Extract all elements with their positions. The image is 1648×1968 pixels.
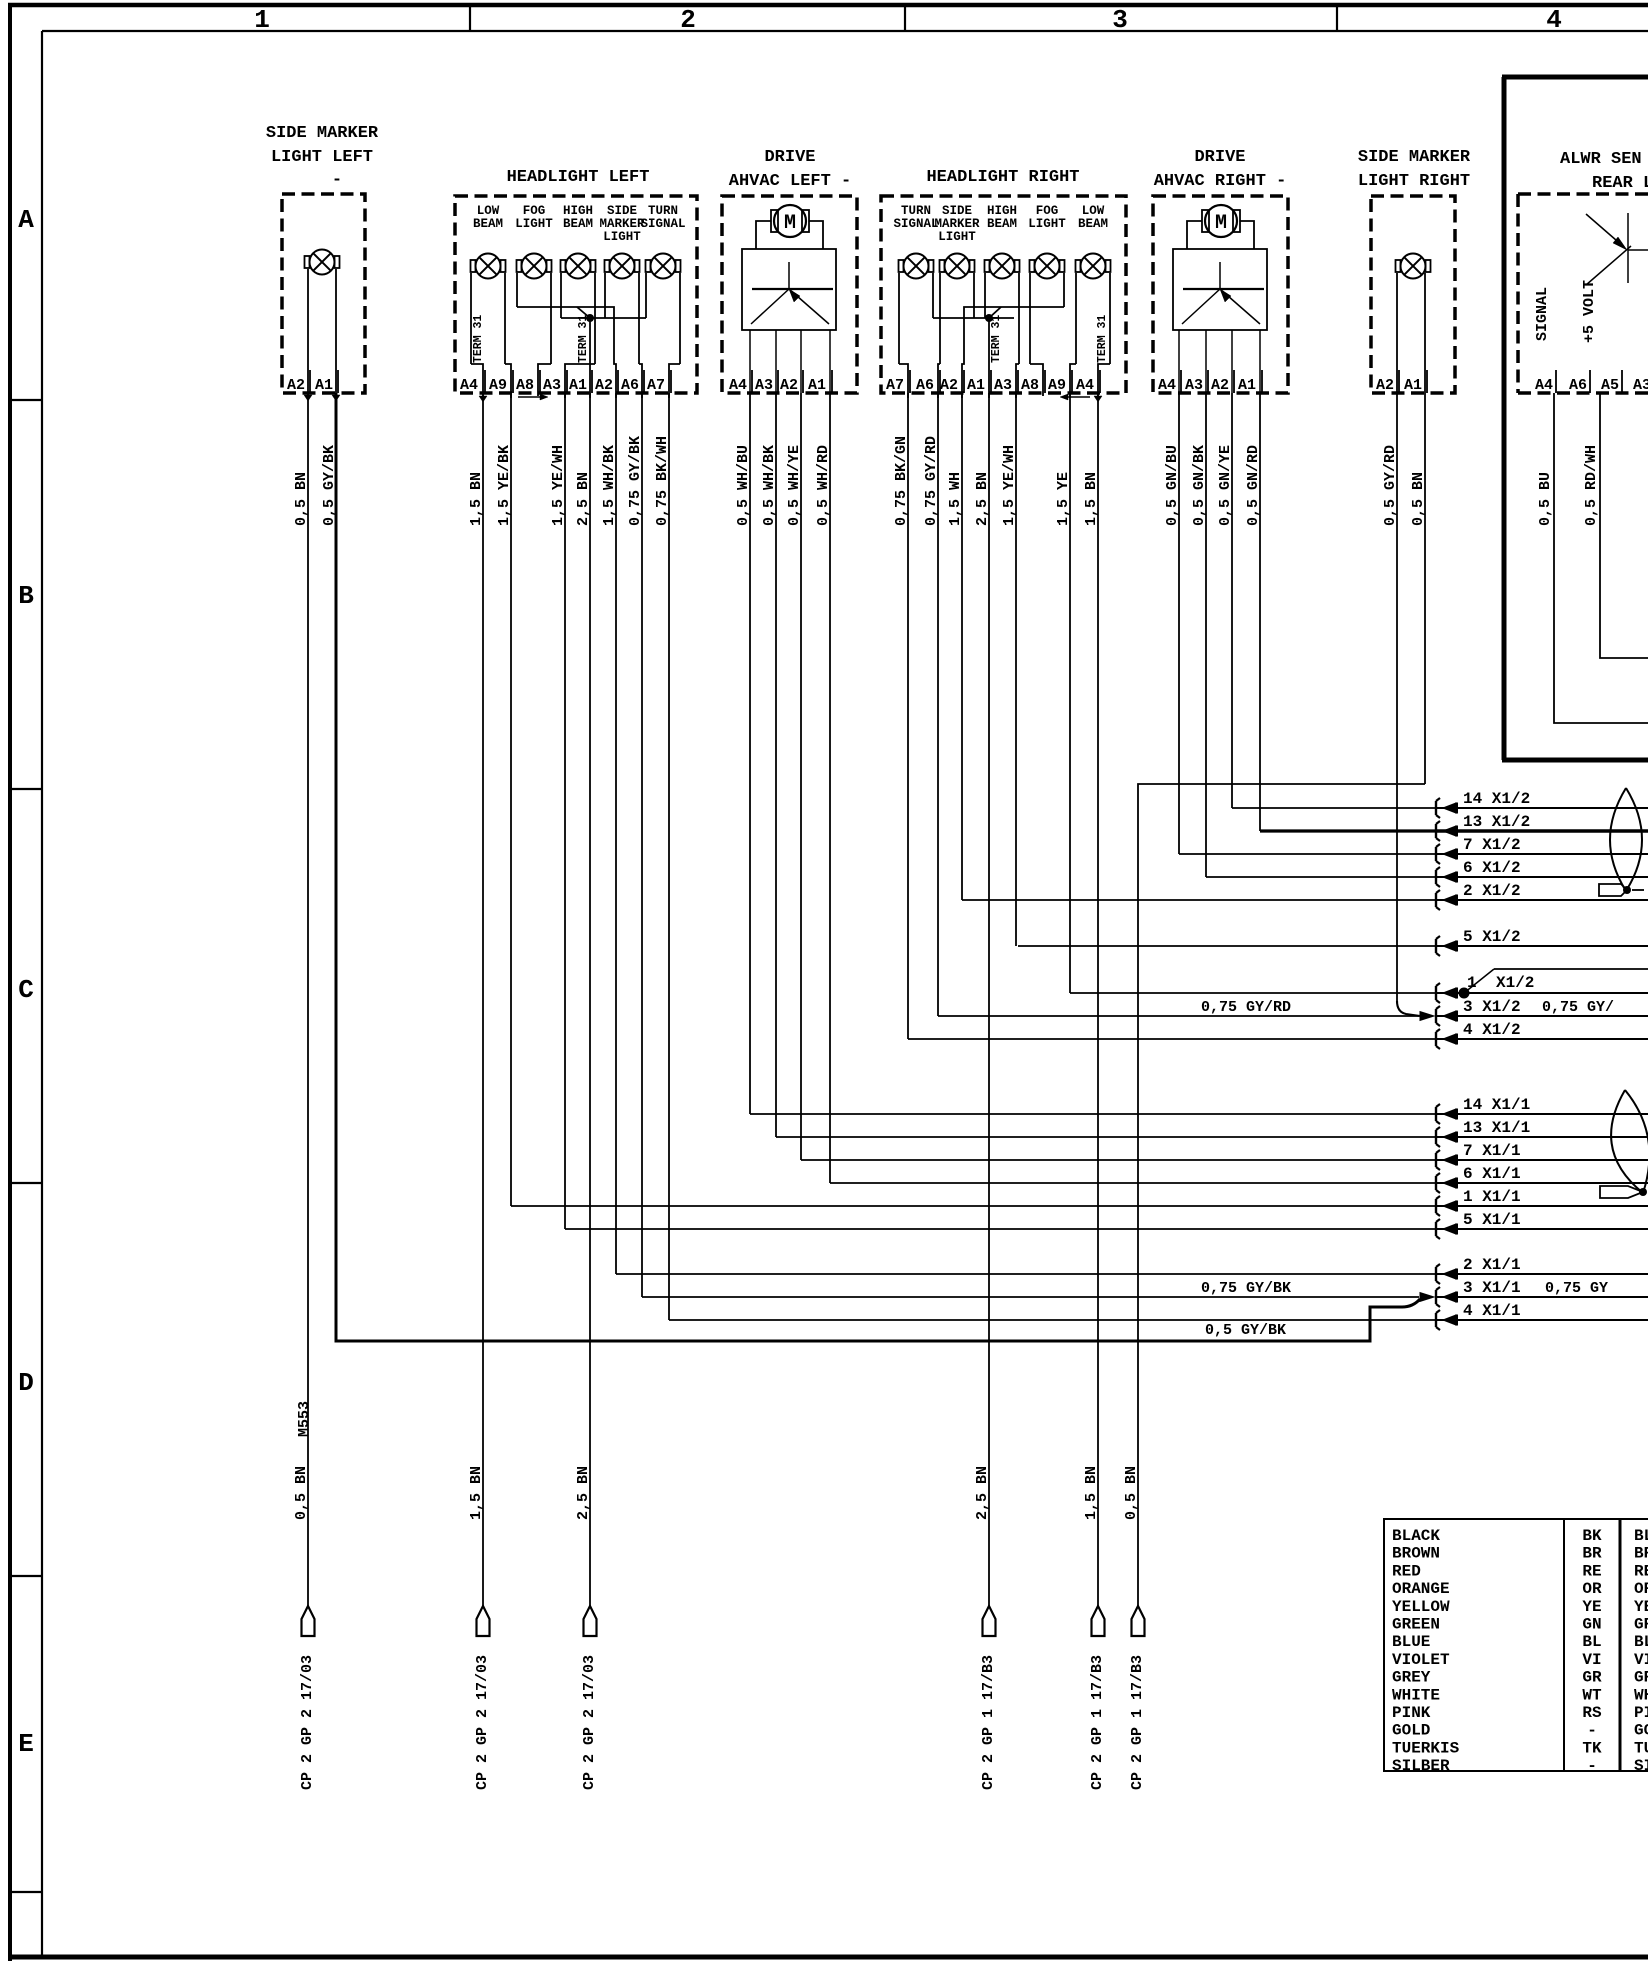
svg-text:TERM 31: TERM 31 [1096,315,1109,363]
svg-text:CP 2 GP 2 17/03: CP 2 GP 2 17/03 [299,1655,316,1790]
svg-text:A9: A9 [1048,377,1066,394]
svg-text:A2: A2 [287,377,305,394]
svg-text:BLUE: BLUE [1392,1633,1430,1651]
svg-text:0,5 GN/RD: 0,5 GN/RD [1245,445,1262,526]
svg-text:A1: A1 [967,377,985,394]
svg-text:RE: RE [1582,1562,1601,1580]
svg-text:-: - [1587,1722,1597,1740]
svg-text:REAR LEF: REAR LEF [1592,174,1648,193]
svg-text:A1: A1 [808,377,826,394]
svg-text:SIGNAL: SIGNAL [1534,287,1551,341]
svg-text:A1: A1 [569,377,587,394]
svg-text:D: D [18,1368,34,1398]
svg-text:BL: BL [1634,1527,1648,1545]
svg-text:-: - [332,171,342,190]
svg-text:13 X1/2: 13 X1/2 [1463,813,1530,831]
svg-text:GR: GR [1582,1669,1602,1687]
svg-text:A8: A8 [1021,377,1039,394]
svg-text:LIGHT: LIGHT [1028,217,1066,231]
svg-text:RED: RED [1392,1562,1421,1580]
svg-text:0,5 BN: 0,5 BN [293,472,310,526]
svg-text:0,5 WH/BK: 0,5 WH/BK [761,445,778,526]
svg-text:TUERKIS: TUERKIS [1392,1739,1460,1757]
svg-text:BR: BR [1634,1545,1648,1563]
svg-text:PI: PI [1634,1704,1648,1722]
svg-text:VIOLET: VIOLET [1392,1651,1450,1669]
svg-text:BK: BK [1582,1527,1602,1545]
svg-text:+5 VOLT: +5 VOLT [1581,280,1598,343]
svg-text:BROWN: BROWN [1392,1545,1440,1563]
svg-text:0,5 GN/YE: 0,5 GN/YE [1217,445,1234,526]
svg-text:X1/2: X1/2 [1496,974,1534,992]
svg-text:A2: A2 [940,377,958,394]
svg-text:1 X1/1: 1 X1/1 [1463,1188,1521,1206]
svg-text:6 X1/2: 6 X1/2 [1463,859,1521,877]
svg-text:SI: SI [1634,1757,1648,1775]
svg-text:SIDE: SIDE [942,204,972,218]
svg-text:SIDE: SIDE [607,204,637,218]
svg-text:C: C [18,975,34,1005]
svg-text:GR: GR [1634,1616,1648,1634]
svg-text:0,75 GY/: 0,75 GY/ [1542,999,1614,1016]
svg-text:DRIVE: DRIVE [1194,148,1245,167]
svg-text:M: M [784,212,796,235]
svg-text:0,5 GN/BU: 0,5 GN/BU [1164,445,1181,526]
svg-text:MARKER: MARKER [599,217,645,231]
svg-text:A: A [18,205,34,235]
svg-text:TURN: TURN [648,204,678,218]
svg-text:3 X1/2: 3 X1/2 [1463,998,1521,1016]
svg-text:1,5 YE/BK: 1,5 YE/BK [496,445,513,526]
svg-text:1,5 YE/WH: 1,5 YE/WH [550,445,567,526]
svg-text:LOW: LOW [1082,204,1105,218]
svg-text:BR: BR [1582,1545,1602,1563]
svg-text:A4: A4 [1535,377,1553,394]
svg-text:A4: A4 [729,377,747,394]
svg-text:0,5 BN: 0,5 BN [293,1466,310,1520]
svg-text:0,75 GY/RD: 0,75 GY/RD [1201,999,1291,1016]
svg-text:BEAM: BEAM [563,217,593,231]
svg-text:A4: A4 [460,377,478,394]
svg-text:A6: A6 [621,377,639,394]
svg-text:CP 2 GP 1 17/B3: CP 2 GP 1 17/B3 [1089,1655,1106,1790]
svg-text:LIGHT: LIGHT [603,230,641,244]
svg-text:2 X1/1: 2 X1/1 [1463,1256,1521,1274]
svg-text:A3: A3 [543,377,561,394]
svg-text:TK: TK [1582,1739,1602,1757]
svg-text:A2: A2 [1376,377,1394,394]
svg-text:0,5 BU: 0,5 BU [1537,472,1554,526]
svg-text:BL: BL [1582,1633,1601,1651]
svg-text:A1: A1 [315,377,333,394]
svg-text:A7: A7 [886,377,904,394]
svg-text:A2: A2 [595,377,613,394]
svg-text:2: 2 [680,5,696,35]
svg-text:A2: A2 [780,377,798,394]
svg-text:0,5 WH/RD: 0,5 WH/RD [815,445,832,526]
svg-text:A3: A3 [755,377,773,394]
svg-text:A8: A8 [516,377,534,394]
svg-text:LIGHT RIGHT: LIGHT RIGHT [1358,172,1470,191]
svg-text:A6: A6 [1569,377,1587,394]
svg-text:YE: YE [1582,1598,1601,1616]
svg-text:RE: RE [1634,1562,1648,1580]
svg-text:4 X1/1: 4 X1/1 [1463,1302,1521,1320]
svg-text:1,5 BN: 1,5 BN [468,472,485,526]
svg-text:BLACK: BLACK [1392,1527,1440,1545]
svg-text:RS: RS [1582,1704,1602,1722]
svg-text:CP 2 GP 1 17/B3: CP 2 GP 1 17/B3 [980,1655,997,1790]
svg-text:M553: M553 [296,1401,313,1437]
svg-text:1,5 WH: 1,5 WH [947,472,964,526]
svg-text:1,5 WH/BK: 1,5 WH/BK [601,445,618,526]
svg-text:0,75 GY/BK: 0,75 GY/BK [1201,1280,1291,1297]
svg-text:2,5 BN: 2,5 BN [575,472,592,526]
svg-text:OR: OR [1634,1580,1648,1598]
svg-text:BEAM: BEAM [473,217,503,231]
svg-text:BEAM: BEAM [1078,217,1108,231]
svg-text:2,5 BN: 2,5 BN [974,472,991,526]
svg-text:AHVAC RIGHT -: AHVAC RIGHT - [1154,172,1287,191]
svg-text:TERM 31: TERM 31 [577,315,590,363]
svg-text:GOLD: GOLD [1392,1722,1430,1740]
svg-text:BEAM: BEAM [987,217,1017,231]
svg-text:GN: GN [1582,1616,1601,1634]
svg-text:A9: A9 [489,377,507,394]
svg-text:LOW: LOW [477,204,500,218]
svg-text:A3: A3 [1633,377,1648,394]
svg-text:TERM 31: TERM 31 [472,315,485,363]
svg-text:CP 2 GP 2 17/03: CP 2 GP 2 17/03 [581,1655,598,1790]
svg-text:WH: WH [1634,1686,1648,1704]
svg-text:0,5 GY/BK: 0,5 GY/BK [1205,1322,1286,1339]
svg-text:0,5 GN/BK: 0,5 GN/BK [1191,445,1208,526]
svg-text:FOG: FOG [523,204,546,218]
svg-text:PINK: PINK [1392,1704,1431,1722]
svg-text:A4: A4 [1076,377,1094,394]
svg-text:TURN: TURN [901,204,931,218]
svg-text:0,75 GY/BK: 0,75 GY/BK [627,436,644,526]
svg-text:A3: A3 [994,377,1012,394]
svg-text:-: - [1587,1757,1597,1775]
svg-text:VI: VI [1582,1651,1601,1669]
svg-text:3: 3 [1112,5,1128,35]
svg-text:7 X1/1: 7 X1/1 [1463,1142,1521,1160]
svg-text:ORANGE: ORANGE [1392,1580,1450,1598]
svg-text:WT: WT [1582,1686,1602,1704]
svg-text:1,5 YE: 1,5 YE [1055,472,1072,526]
svg-text:0,75 GY/RD: 0,75 GY/RD [923,436,940,526]
svg-text:14 X1/2: 14 X1/2 [1463,790,1530,808]
svg-text:E: E [18,1729,34,1759]
svg-text:GR: GR [1634,1669,1648,1687]
svg-text:SIGNAL: SIGNAL [893,217,938,231]
svg-text:5 X1/2: 5 X1/2 [1463,928,1521,946]
svg-text:A1: A1 [1404,377,1422,394]
svg-text:FOG: FOG [1036,204,1059,218]
svg-text:0,5 WH/BU: 0,5 WH/BU [735,445,752,526]
svg-text:0,5 BN: 0,5 BN [1123,1466,1140,1520]
svg-text:TU: TU [1634,1739,1648,1757]
svg-text:1,5 BN: 1,5 BN [468,1466,485,1520]
svg-text:YELLOW: YELLOW [1392,1598,1450,1616]
svg-text:DRIVE: DRIVE [764,148,815,167]
svg-text:LIGHT: LIGHT [938,230,976,244]
svg-text:HIGH: HIGH [563,204,593,218]
svg-text:MARKER: MARKER [934,217,980,231]
svg-text:4 X1/2: 4 X1/2 [1463,1021,1521,1039]
svg-text:4: 4 [1546,5,1562,35]
svg-text:BL: BL [1634,1633,1648,1651]
svg-text:GO: GO [1634,1722,1648,1740]
svg-text:2,5 BN: 2,5 BN [575,1466,592,1520]
svg-text:2 X1/2: 2 X1/2 [1463,882,1521,900]
svg-text:WHITE: WHITE [1392,1686,1440,1704]
svg-text:HEADLIGHT LEFT: HEADLIGHT LEFT [507,168,650,187]
svg-text:2,5 BN: 2,5 BN [974,1466,991,1520]
svg-text:1,5 BN: 1,5 BN [1083,1466,1100,1520]
svg-text:1: 1 [254,5,270,35]
svg-text:0,75 BK/GN: 0,75 BK/GN [893,436,910,526]
svg-text:A3: A3 [1185,377,1203,394]
svg-text:0,75 GY: 0,75 GY [1545,1280,1608,1297]
svg-text:0,5 WH/YE: 0,5 WH/YE [786,445,803,526]
svg-text:SIDE MARKER: SIDE MARKER [1358,148,1471,167]
svg-text:SIGNAL: SIGNAL [640,217,685,231]
svg-text:SILBER: SILBER [1392,1757,1450,1775]
svg-text:A5: A5 [1601,377,1619,394]
svg-text:A2: A2 [1211,377,1229,394]
svg-text:M: M [1215,212,1227,235]
svg-text:HEADLIGHT RIGHT: HEADLIGHT RIGHT [926,168,1079,187]
svg-text:5 X1/1: 5 X1/1 [1463,1211,1521,1229]
svg-text:CP 2 GP 1 17/B3: CP 2 GP 1 17/B3 [1129,1655,1146,1790]
svg-text:A6: A6 [916,377,934,394]
svg-text:SIDE MARKER: SIDE MARKER [266,124,379,143]
svg-text:CP 2 GP 2 17/03: CP 2 GP 2 17/03 [474,1655,491,1790]
svg-text:A1: A1 [1238,377,1256,394]
svg-text:HIGH: HIGH [987,204,1017,218]
svg-text:VI: VI [1634,1651,1648,1669]
svg-text:LIGHT: LIGHT [515,217,553,231]
svg-text:3 X1/1: 3 X1/1 [1463,1279,1521,1297]
svg-text:0,5 BN: 0,5 BN [1410,472,1427,526]
svg-text:7 X1/2: 7 X1/2 [1463,836,1521,854]
svg-text:OR: OR [1582,1580,1602,1598]
svg-text:GREY: GREY [1392,1669,1431,1687]
svg-text:TERM 31: TERM 31 [990,315,1003,363]
svg-text:0,5 GY/RD: 0,5 GY/RD [1382,445,1399,526]
svg-text:13 X1/1: 13 X1/1 [1463,1119,1530,1137]
svg-text:GREEN: GREEN [1392,1616,1440,1634]
svg-text:1,5 YE/WH: 1,5 YE/WH [1001,445,1018,526]
svg-text:0,75 BK/WH: 0,75 BK/WH [654,436,671,526]
svg-text:LIGHT LEFT: LIGHT LEFT [271,148,373,167]
svg-text:6 X1/1: 6 X1/1 [1463,1165,1521,1183]
svg-text:B: B [18,581,34,611]
svg-text:YE: YE [1634,1598,1648,1616]
svg-text:A7: A7 [647,377,665,394]
svg-text:1: 1 [1467,974,1477,992]
svg-text:14 X1/1: 14 X1/1 [1463,1096,1530,1114]
svg-text:1,5 BN: 1,5 BN [1083,472,1100,526]
svg-text:ALWR SEN: ALWR SEN [1560,150,1642,169]
svg-text:0,5 RD/WH: 0,5 RD/WH [1583,445,1600,526]
svg-text:AHVAC LEFT -: AHVAC LEFT - [729,172,851,191]
svg-text:A4: A4 [1158,377,1176,394]
